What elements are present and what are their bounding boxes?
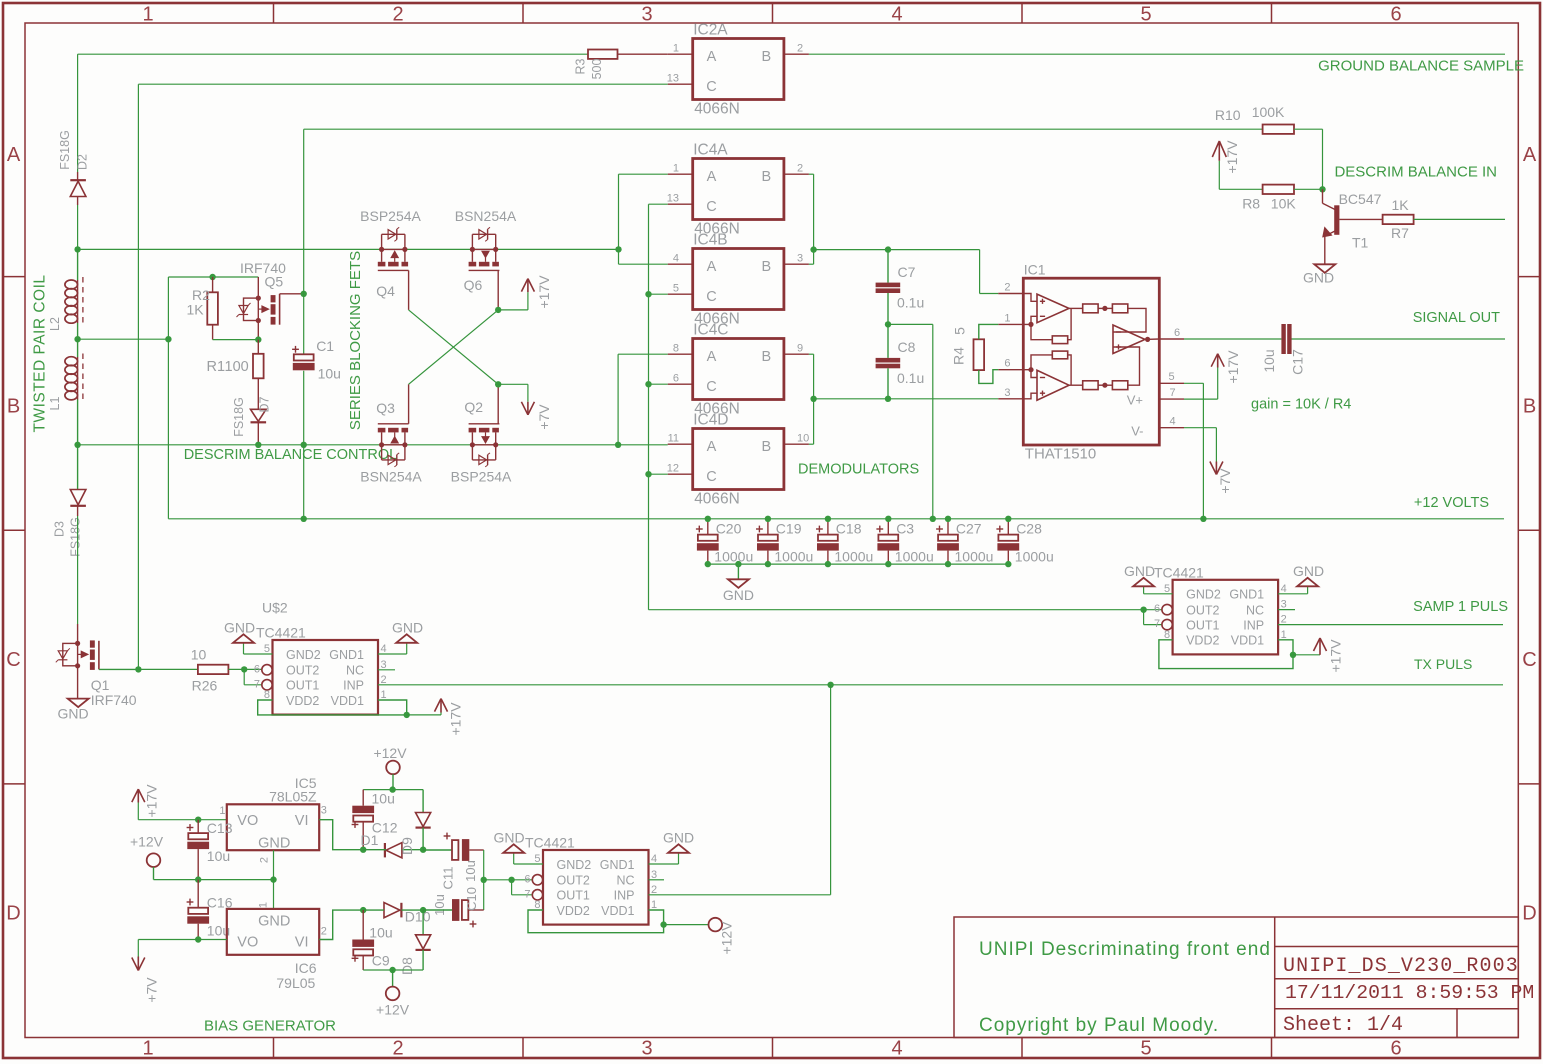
svg-text:6: 6 <box>1004 358 1010 370</box>
wire bottom TC4421 pin3 stub <box>649 879 665 881</box>
svg-text:Copyright by Paul Moody.: Copyright by Paul Moody. <box>979 1015 1219 1036</box>
svg-text:OUT1: OUT1 <box>557 889 590 903</box>
capacitor C12 10u <box>352 790 398 850</box>
wire right TC4421 VDD loop <box>1159 640 1293 669</box>
svg-text:DESCRIM BALANCE IN: DESCRIM BALANCE IN <box>1334 164 1497 181</box>
svg-text:INP: INP <box>343 679 364 693</box>
svg-text:2: 2 <box>1004 282 1010 294</box>
svg-text:4: 4 <box>381 643 387 655</box>
node +12V leg / coil centre junction <box>165 336 171 342</box>
svg-text:TC4421: TC4421 <box>1154 564 1204 580</box>
svg-text:Q4: Q4 <box>376 283 395 299</box>
label +12 VOLTS <box>1414 495 1489 511</box>
svg-text:4066N: 4066N <box>694 101 740 118</box>
svg-text:C1: C1 <box>316 338 334 354</box>
svg-text:4: 4 <box>673 253 679 265</box>
svg-text:5: 5 <box>1140 4 1151 26</box>
svg-text:GND2: GND2 <box>286 648 321 662</box>
svg-text:TC4421: TC4421 <box>256 625 306 641</box>
driver IC TC4421-right TC4421 <box>1154 564 1287 654</box>
svg-text:+12V: +12V <box>130 834 164 850</box>
svg-text:R7: R7 <box>1391 225 1409 241</box>
capacitor C8 0.1u <box>876 324 925 398</box>
frame row letters <box>6 144 1537 925</box>
svg-text:5: 5 <box>673 283 679 295</box>
svg-text:10u: 10u <box>432 894 447 916</box>
switch IC IC4A 4066N <box>667 142 809 238</box>
resistor R2 1K <box>187 277 218 340</box>
svg-text:BIAS GENERATOR: BIAS GENERATOR <box>204 1018 336 1035</box>
wire D2 to coil junction <box>77 205 79 249</box>
wire demod bottom output to IC1 pin3 <box>814 398 999 400</box>
svg-text:V+: V+ <box>1127 393 1143 408</box>
label gain = 10K / R4 <box>1251 397 1351 413</box>
svg-text:NC: NC <box>346 664 364 678</box>
node C7 rail junction <box>930 516 936 522</box>
transistor Q3 BSN254A <box>360 384 422 484</box>
svg-text:3: 3 <box>1004 387 1010 399</box>
svg-text:3: 3 <box>797 253 803 265</box>
svg-text:5: 5 <box>952 327 968 335</box>
svg-text:IC4C: IC4C <box>693 322 728 339</box>
wire IC5 GND pin <box>273 850 275 879</box>
node Q5 drain junction <box>301 291 307 297</box>
svg-text:IRF740: IRF740 <box>91 692 137 708</box>
svg-text:+17V: +17V <box>1328 639 1344 673</box>
svg-text:VDD2: VDD2 <box>286 694 319 708</box>
node IC1 pin5 rail junction <box>1200 516 1206 522</box>
label GROUND BALANCE SAMPLE <box>1318 58 1524 75</box>
svg-text:U$2: U$2 <box>262 600 288 616</box>
label DEMODULATORS <box>798 462 919 478</box>
wire bottom TC4421 VDD loop <box>528 910 664 933</box>
svg-text:C: C <box>706 469 716 485</box>
svg-text:8: 8 <box>1164 629 1170 641</box>
wire right TC4421 pin3 stub <box>1278 609 1295 611</box>
svg-text:D9: D9 <box>399 837 415 855</box>
node Q1 gate junction <box>135 666 141 672</box>
svg-text:TX PULS: TX PULS <box>1414 656 1472 672</box>
svg-text:8: 8 <box>264 689 270 701</box>
wire IC1 pin4 V- to +7V <box>1184 428 1216 462</box>
svg-text:UNIPI Descriminating front end: UNIPI Descriminating front end <box>979 939 1271 960</box>
svg-text:C: C <box>706 379 716 395</box>
svg-text:GND: GND <box>663 830 694 846</box>
node bottom TC4421 input junction <box>508 877 514 883</box>
label DESCRIM BALANCE CONTROL <box>184 447 398 463</box>
svg-text:C27: C27 <box>956 521 982 537</box>
resistor R10 100K <box>1215 104 1294 134</box>
svg-text:1: 1 <box>142 1038 153 1060</box>
node demod bottom output junction <box>810 396 816 402</box>
wire +17V to IC5 VO <box>138 803 227 820</box>
supply +7V arrow (bias) <box>132 957 160 1003</box>
resistor R7 1K <box>1383 197 1414 241</box>
svg-text:BSN254A: BSN254A <box>360 469 422 485</box>
svg-text:R8: R8 <box>1242 196 1260 212</box>
wire C12/D9 top net <box>363 789 423 791</box>
diode D8 <box>399 910 431 975</box>
diode D10 <box>363 903 430 925</box>
wire right TC4421 VDD to +17V <box>1293 654 1320 656</box>
node C11/C10 mid junction <box>481 877 487 883</box>
node demod top output junction <box>810 246 816 252</box>
label BIAS GENERATOR <box>204 1018 336 1035</box>
svg-text:1K: 1K <box>187 302 205 318</box>
wire SAMP 1 PULS net (pin2) <box>1278 624 1503 626</box>
wire R26 to U$2 inputs <box>228 669 262 684</box>
svg-text:4: 4 <box>1170 416 1176 428</box>
capacitor C7 0.1u <box>876 250 925 325</box>
svg-text:10u: 10u <box>372 791 395 807</box>
svg-text:1: 1 <box>673 43 679 55</box>
capacitor C11 10u <box>423 833 484 916</box>
label SERIES BLOCKING FETS <box>347 251 364 430</box>
supply +17V arrow (FETs) <box>521 275 552 309</box>
svg-text:D8: D8 <box>399 957 415 975</box>
wire IC4C out / IC4D out join <box>809 354 814 444</box>
wire IC1 pin5 to +12V rail <box>1184 383 1203 519</box>
svg-text:5: 5 <box>1164 583 1170 595</box>
svg-text:C: C <box>706 79 716 95</box>
svg-text:4: 4 <box>891 1038 902 1060</box>
driver IC TC4421-bottom TC4421 <box>524 835 657 925</box>
svg-text:17/11/2011 8:59:53 PM: 17/11/2011 8:59:53 PM <box>1285 982 1534 1004</box>
capacitor C13 10u <box>187 820 233 880</box>
wire coil centre to +12V rail leg <box>78 338 169 340</box>
wire Q1 gate to R26 <box>138 668 198 670</box>
svg-text:10u: 10u <box>369 925 392 941</box>
wire IC4A out / IC4B out join <box>809 174 814 264</box>
svg-text:A: A <box>707 49 717 65</box>
resistor R3 500 <box>574 50 668 80</box>
node C16 bottom junction <box>195 936 201 942</box>
svg-text:8: 8 <box>673 343 679 355</box>
wire C7/C8 mid to +12V rail <box>888 324 933 518</box>
node D7 bottom junction <box>255 442 261 448</box>
svg-text:C10: C10 <box>464 887 479 911</box>
node C18 top junction <box>825 516 831 522</box>
node C7/C8 mid junction <box>885 321 891 327</box>
svg-text:+17V: +17V <box>536 275 552 309</box>
supply +12V circle (bottom TC4421) <box>709 918 735 955</box>
op-amp IC1 THAT1510 <box>998 262 1184 463</box>
wire U$2 VDD to +17V <box>407 713 441 715</box>
node D10 right junction <box>420 907 426 913</box>
svg-text:INP: INP <box>1243 619 1264 633</box>
svg-text:4: 4 <box>651 853 657 865</box>
svg-text:A: A <box>707 439 717 455</box>
ground GND (bottom TC4421 pin5) <box>493 830 543 865</box>
regulator IC5 78L05Z <box>219 775 326 863</box>
svg-text:GND: GND <box>392 620 423 636</box>
capacitor C17 10u <box>1261 324 1306 375</box>
svg-text:R10: R10 <box>1215 107 1241 123</box>
svg-text:GND2: GND2 <box>1186 588 1221 602</box>
node +12V rail / left leg corner junction <box>301 516 307 522</box>
svg-text:4: 4 <box>891 4 902 26</box>
svg-text:7: 7 <box>1154 618 1160 630</box>
svg-text:2: 2 <box>392 1038 403 1060</box>
transistor Q5 IRF740 <box>237 260 304 340</box>
frame column ticks <box>274 3 1272 1058</box>
svg-text:10K: 10K <box>1271 196 1297 212</box>
ground GND (Q1 source) <box>57 699 88 722</box>
svg-text:10: 10 <box>797 433 809 445</box>
svg-text:R26: R26 <box>192 678 218 694</box>
svg-text:100K: 100K <box>1252 104 1285 120</box>
switch IC IC4C 4066N <box>668 322 809 418</box>
svg-text:IC1: IC1 <box>1024 262 1046 278</box>
capacitor C10 10u <box>423 860 484 927</box>
svg-text:B: B <box>761 169 771 185</box>
title text Copyright by Paul Moody. <box>979 1015 1219 1036</box>
wire top FET row net (coil to IC4A/IC4B) <box>78 248 619 250</box>
node bottom TC4421 VDD junction <box>660 921 666 927</box>
svg-text:L1: L1 <box>48 397 62 411</box>
inductor L2 (twisted pair coil) <box>48 249 83 339</box>
svg-text:0.1u: 0.1u <box>897 295 924 311</box>
svg-text:BC547: BC547 <box>1339 191 1382 207</box>
wire TX PULS tap to bottom TC4421 <box>830 685 832 895</box>
wire IC6 VI to D10 node <box>319 910 363 939</box>
svg-text:B: B <box>761 259 771 275</box>
svg-text:2: 2 <box>259 857 271 863</box>
supply +12V circle (C9 bottom) <box>376 970 410 1018</box>
svg-text:+17V: +17V <box>144 784 160 818</box>
svg-text:GND: GND <box>1293 563 1324 579</box>
title block date 17/11/2011 8:59:53 PM <box>1285 982 1534 1004</box>
diode D3 FS18G <box>53 445 86 557</box>
supply +17V arrow (IC1) <box>1211 350 1241 384</box>
svg-text:2: 2 <box>321 926 327 938</box>
svg-text:DESCRIM BALANCE CONTROL: DESCRIM BALANCE CONTROL <box>184 447 398 463</box>
wire R10 to base node <box>1294 129 1323 189</box>
svg-text:GND: GND <box>493 830 524 846</box>
node R26 output junction <box>241 666 247 672</box>
svg-text:D3: D3 <box>53 521 67 537</box>
svg-text:IC4B: IC4B <box>693 232 727 249</box>
label SIGNAL OUT <box>1413 310 1500 326</box>
svg-text:4066N: 4066N <box>694 491 740 508</box>
node Q2 gate junction <box>495 381 501 387</box>
svg-text:500: 500 <box>590 59 604 80</box>
svg-text:GND: GND <box>258 914 290 930</box>
svg-text:C20: C20 <box>716 521 742 537</box>
ground GND (U$2 pin5) <box>224 620 273 655</box>
label DESCRIM BALANCE IN <box>1334 164 1497 181</box>
svg-text:VDD1: VDD1 <box>1231 634 1264 648</box>
svg-text:5: 5 <box>264 643 270 655</box>
svg-text:OUT2: OUT2 <box>557 874 590 888</box>
supply +17V arrow (right TC4421) <box>1314 638 1344 673</box>
svg-text:2: 2 <box>1281 614 1287 626</box>
svg-text:A: A <box>707 349 717 365</box>
wire GROUND BALANCE SAMPLE net <box>809 53 1505 55</box>
wire D3 to Q1 drain <box>77 516 79 624</box>
node C7 top junction <box>885 246 891 252</box>
wire Q2 gate to +7V <box>498 384 528 402</box>
svg-text:D2: D2 <box>76 154 90 170</box>
capacitor C1 10u <box>292 338 341 382</box>
svg-text:C: C <box>706 199 716 215</box>
node control net pin6 junction <box>645 381 651 387</box>
svg-text:+12V: +12V <box>373 745 407 761</box>
ground GND (right TC4421 pin4) <box>1278 563 1324 594</box>
svg-text:9: 9 <box>797 343 803 355</box>
svg-text:1: 1 <box>1004 312 1010 324</box>
capacitor C19 1000u <box>756 519 813 565</box>
node C19 top junction <box>765 516 771 522</box>
driver IC U$2 TC4421 <box>254 600 387 715</box>
wire IC2A pin13 net <box>138 84 667 669</box>
svg-text:A: A <box>1523 144 1537 166</box>
svg-text:+17V: +17V <box>1225 350 1241 384</box>
svg-text:B: B <box>761 49 771 65</box>
svg-text:GND: GND <box>224 620 255 636</box>
capacitor C18 1000u <box>816 519 873 565</box>
svg-text:4: 4 <box>1281 583 1287 595</box>
svg-text:GND1: GND1 <box>1229 588 1264 602</box>
switch IC IC4D 4066N <box>667 412 810 508</box>
wire TX PULS net (U$2 pin2) <box>378 684 1503 686</box>
node right TC4421 VDD junction <box>1290 652 1296 658</box>
svg-text:A: A <box>707 169 717 185</box>
node C3 bottom junction <box>885 561 891 567</box>
svg-text:Sheet: 1/4: Sheet: 1/4 <box>1283 1014 1403 1037</box>
capacitor C3 1000u <box>876 519 933 565</box>
svg-text:C8: C8 <box>898 339 916 355</box>
wire bottom TC4421 INP to TX PULS <box>649 894 831 896</box>
svg-text:D1: D1 <box>361 832 379 848</box>
wire +12V mid rail (bias) <box>154 879 274 881</box>
svg-text:2: 2 <box>797 43 803 55</box>
wire caps to bottom TC4421 inputs <box>484 880 533 895</box>
wire IC1 pin7 V+ to +17V <box>1184 368 1218 400</box>
svg-text:gain = 10K / R4: gain = 10K / R4 <box>1251 397 1351 413</box>
wire Q5 drain net to R10 <box>304 128 1263 130</box>
wire U$2 VDD loop <box>258 700 407 715</box>
node C27 top junction <box>945 516 951 522</box>
transistor Q1 IRF740 <box>56 624 139 708</box>
capacitor C28 1000u <box>996 519 1053 565</box>
node C28 top junction <box>1005 516 1011 522</box>
node D1 left junction <box>360 847 366 853</box>
svg-text:OUT2: OUT2 <box>286 664 319 678</box>
svg-text:R3: R3 <box>574 58 588 74</box>
supply +12V circle (C12 top) <box>373 745 407 790</box>
svg-text:79L05: 79L05 <box>276 975 315 991</box>
svg-text:NC: NC <box>1246 604 1264 618</box>
svg-text:1000u: 1000u <box>955 549 994 565</box>
svg-text:SIGNAL OUT: SIGNAL OUT <box>1413 310 1500 326</box>
svg-text:10u: 10u <box>207 848 230 864</box>
node C18 bottom junction <box>825 561 831 567</box>
svg-text:A: A <box>7 144 21 166</box>
node T1 base junction <box>1319 186 1325 192</box>
svg-text:3: 3 <box>641 1038 652 1060</box>
svg-text:TWISTED PAIR COIL: TWISTED PAIR COIL <box>32 274 49 432</box>
node C13 top junction <box>195 817 201 823</box>
diode D1 <box>361 832 424 858</box>
switch IC IC2A 4066N <box>667 22 809 118</box>
svg-text:1: 1 <box>1281 629 1287 641</box>
title text UNIPI Descriminating front end <box>979 939 1271 960</box>
node +12V top junction <box>389 786 395 792</box>
svg-text:B: B <box>1523 395 1536 417</box>
wire R10 net vertical (Q5 drain / C1) <box>303 129 305 519</box>
svg-text:VDD1: VDD1 <box>331 694 364 708</box>
svg-text:GND1: GND1 <box>600 858 635 872</box>
svg-text:GROUND BALANCE SAMPLE: GROUND BALANCE SAMPLE <box>1318 58 1524 75</box>
svg-text:BSN254A: BSN254A <box>455 208 517 224</box>
resistor R26 10 <box>191 647 229 694</box>
supply +17V arrow (U$2) <box>435 699 464 736</box>
svg-text:C17: C17 <box>1290 349 1306 375</box>
svg-text:10u: 10u <box>318 366 341 382</box>
svg-text:+12 VOLTS: +12 VOLTS <box>1414 495 1489 511</box>
svg-text:L2: L2 <box>48 317 62 331</box>
supply +12V circle (bias left) <box>130 834 164 880</box>
capacitor C9 10u <box>352 910 393 970</box>
wire VDD to +12V circle <box>664 924 709 926</box>
svg-text:C: C <box>1522 649 1536 671</box>
svg-text:6: 6 <box>1390 4 1401 26</box>
svg-text:Q6: Q6 <box>464 277 483 293</box>
svg-text:FS18G: FS18G <box>232 397 246 437</box>
wire U$2 pin3 stub <box>378 669 395 671</box>
svg-text:5: 5 <box>534 853 540 865</box>
svg-text:C11: C11 <box>441 867 456 890</box>
svg-text:B: B <box>761 439 771 455</box>
svg-text:100: 100 <box>225 359 249 375</box>
node C20 bottom junction <box>705 561 711 567</box>
node Q6 gate junction <box>495 307 501 313</box>
supply +7V arrow (FETs) <box>521 402 552 430</box>
node C19 bottom junction <box>765 561 771 567</box>
svg-text:SERIES BLOCKING FETS: SERIES BLOCKING FETS <box>347 251 364 430</box>
svg-text:GND: GND <box>258 836 290 852</box>
svg-text:D7: D7 <box>257 396 271 412</box>
transistor Q2 BSP254A <box>451 384 512 484</box>
supply +17V arrow (bias input) <box>132 784 160 818</box>
svg-text:GND2: GND2 <box>557 858 592 872</box>
wire net to R3 (top left) <box>78 54 588 172</box>
svg-text:1000u: 1000u <box>774 549 813 565</box>
node C8 bottom junction <box>885 396 891 402</box>
capacitor C16 10u <box>187 880 233 940</box>
svg-text:C13: C13 <box>207 820 233 836</box>
svg-text:6: 6 <box>1390 1038 1401 1060</box>
ground GND (cap bus) <box>723 561 754 603</box>
svg-text:GND: GND <box>57 706 88 722</box>
regulator IC6 79L05 <box>227 902 327 991</box>
svg-text:C: C <box>6 649 20 671</box>
svg-text:D: D <box>6 903 20 925</box>
svg-text:VI: VI <box>295 813 309 829</box>
node coil centre junction <box>74 336 80 342</box>
wire R8 to base node <box>1294 188 1323 190</box>
label SAMP 1 PULS <box>1413 599 1508 615</box>
wire IC6 GND pin <box>273 880 275 909</box>
svg-text:D10: D10 <box>405 909 431 925</box>
svg-text:3: 3 <box>1281 599 1287 611</box>
title block frame <box>954 917 1518 1038</box>
svg-text:GND1: GND1 <box>329 648 364 662</box>
wire +17V to R8 <box>1219 161 1262 190</box>
svg-text:C19: C19 <box>776 521 802 537</box>
transistor Q4 BSP254A <box>360 208 421 310</box>
